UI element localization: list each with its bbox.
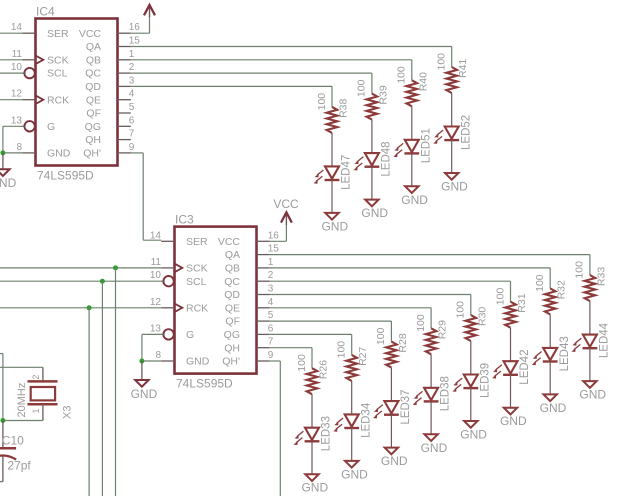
svg-text:R27: R27 [357, 346, 369, 365]
svg-text:LED33: LED33 [321, 416, 333, 451]
svg-text:QD: QD [85, 81, 101, 93]
svg-text:C10: C10 [2, 434, 24, 448]
ground symbol IC4 [0, 153, 17, 190]
wire feed to resistor R27 [351, 334, 353, 355]
svg-text:12: 12 [11, 89, 23, 100]
wire SCL vertical drop [101, 281, 103, 496]
wire C10 to left edge [0, 481, 3, 483]
ground symbol below LED52 [441, 173, 468, 194]
svg-text:100: 100 [356, 79, 368, 97]
wire feed to resistor R39 [371, 73, 373, 94]
wire LED to ground [311, 441, 313, 474]
svg-text:GND: GND [47, 148, 71, 160]
svg-text:2: 2 [129, 62, 135, 73]
wire LED to ground [351, 428, 353, 461]
svg-text:13: 13 [150, 323, 162, 334]
wire QD IC3 to R30 [270, 294, 471, 296]
svg-text:R41: R41 [457, 59, 469, 78]
svg-text:RCK: RCK [186, 302, 208, 314]
wire LED to ground [430, 401, 432, 434]
wire QC IC4 pin 2 to R39 [131, 72, 372, 74]
svg-text:100: 100 [455, 301, 467, 319]
IC IC3 74LS595D shift register [150, 213, 279, 391]
svg-text:VCC: VCC [273, 197, 299, 211]
svg-text:QG: QG [85, 121, 101, 133]
LED LED44 [572, 322, 611, 358]
ground symbol below LED44 [579, 381, 606, 402]
VCC symbol IC3 pin 16 [270, 197, 299, 241]
svg-text:SCL: SCL [186, 276, 207, 288]
svg-text:8: 8 [16, 142, 22, 153]
svg-text:GND: GND [0, 176, 17, 190]
svg-text:13: 13 [11, 115, 23, 126]
wire resistor to LED LED34 [351, 381, 353, 415]
svg-text:R39: R39 [377, 85, 389, 104]
svg-text:GND: GND [361, 206, 388, 220]
svg-text:100: 100 [436, 53, 448, 71]
svg-text:10: 10 [150, 270, 162, 281]
LED LED34 [333, 402, 372, 438]
LED LED38 [413, 376, 452, 411]
svg-text:QB: QB [86, 54, 101, 66]
wire SCL bus to IC3 pin 10 [0, 280, 163, 282]
svg-text:16: 16 [129, 22, 141, 33]
wire QA IC3 to R33 [270, 254, 590, 256]
IC IC4 74LS595D shift register [11, 5, 140, 183]
wire QD IC4 pin 3 to R38 [131, 85, 332, 87]
svg-text:LED42: LED42 [519, 350, 531, 385]
svg-text:QB: QB [225, 263, 240, 275]
crystal X3 20MHz [16, 367, 73, 420]
ground symbol below LED34 [341, 461, 368, 482]
wire resistor to LED LED52 [451, 93, 453, 127]
node junction RCK [87, 305, 92, 310]
wire RCK bus to IC3 pin 12 [0, 307, 161, 309]
LED LED51 [393, 128, 432, 163]
LED LED52 [433, 115, 472, 150]
svg-text:QE: QE [225, 302, 240, 314]
svg-text:16: 16 [268, 230, 280, 241]
wire QG IC3 to R27 [270, 333, 352, 335]
svg-text:7: 7 [268, 337, 274, 348]
ground symbol below LED48 [361, 200, 388, 221]
resistor R27 value 100 [336, 341, 370, 381]
svg-text:1: 1 [129, 49, 135, 60]
wire resistor to LED LED39 [470, 341, 472, 375]
ground symbol below LED47 [321, 213, 348, 234]
wire QC IC3 to R31 [270, 280, 511, 282]
wire GND IC4 pin 8 [3, 152, 22, 154]
svg-text:QA: QA [86, 41, 101, 53]
wire crystal X3 pin 2 net from left edge [0, 354, 3, 421]
svg-text:27pf: 27pf [7, 459, 31, 473]
resistor R40 value 100 [396, 66, 430, 106]
svg-text:3: 3 [268, 284, 274, 295]
svg-text:GND: GND [131, 387, 158, 401]
ground symbol below LED38 [421, 434, 448, 455]
wire resistor to LED LED33 [311, 394, 313, 428]
wire LED to ground [510, 375, 512, 408]
svg-text:G: G [47, 121, 55, 133]
svg-text:QH: QH [85, 134, 101, 146]
svg-text:GND: GND [540, 401, 567, 415]
svg-text:15: 15 [268, 244, 280, 255]
svg-text:LED51: LED51 [420, 128, 432, 163]
svg-text:QH: QH [224, 342, 240, 354]
node junction crystal / C10 [0, 418, 5, 423]
ground symbol IC3 [131, 361, 158, 401]
svg-text:GND: GND [381, 454, 408, 468]
wire LED to ground [371, 167, 373, 200]
svg-text:IC3: IC3 [175, 213, 194, 227]
svg-text:R26: R26 [318, 360, 330, 379]
svg-text:10: 10 [11, 62, 23, 73]
wire QB IC4 pin 1 to R40 [131, 59, 412, 61]
svg-text:15: 15 [129, 36, 141, 47]
svg-text:14: 14 [150, 230, 162, 241]
svg-text:14: 14 [11, 22, 23, 33]
svg-text:12: 12 [150, 297, 162, 308]
wire QH' IC3 pin 9 drop to bottom [270, 361, 281, 496]
svg-text:VCC: VCC [218, 236, 241, 248]
svg-text:QH': QH' [222, 356, 240, 368]
LED LED39 [452, 363, 491, 398]
svg-text:QF: QF [225, 316, 240, 328]
svg-text:9: 9 [268, 350, 274, 361]
svg-text:100: 100 [296, 354, 308, 372]
svg-text:100: 100 [375, 327, 387, 345]
wire QF IC3 to R28 [270, 320, 392, 322]
ground symbol below LED43 [540, 394, 567, 415]
wire crystal X3 pin 2 horizontal from left edge [0, 366, 43, 368]
ground symbol below LED39 [460, 421, 487, 442]
svg-text:100: 100 [415, 314, 427, 332]
svg-text:GND: GND [401, 193, 428, 207]
svg-text:SCL: SCL [47, 68, 68, 80]
wire LED to ground [470, 388, 472, 421]
svg-text:SCK: SCK [186, 263, 208, 275]
wire QE IC3 to R29 [270, 307, 431, 309]
LED LED43 [532, 336, 571, 371]
svg-text:LED34: LED34 [360, 402, 372, 438]
svg-text:SER: SER [186, 236, 208, 248]
svg-text:R29: R29 [437, 320, 449, 339]
svg-text:8: 8 [155, 350, 161, 361]
LED LED48 [354, 141, 393, 176]
wire feed to resistor R33 [589, 255, 591, 276]
svg-text:X3: X3 [62, 406, 74, 419]
svg-text:74LS595D: 74LS595D [176, 377, 233, 391]
svg-text:7: 7 [129, 129, 135, 140]
svg-text:1: 1 [268, 257, 274, 268]
wire feed to resistor R41 [451, 47, 453, 68]
LED LED33 [294, 416, 333, 451]
node junction SCK [113, 265, 118, 270]
svg-text:100: 100 [494, 288, 506, 306]
svg-text:2: 2 [268, 270, 274, 281]
resistor R30 value 100 [455, 301, 489, 341]
svg-text:R33: R33 [595, 267, 607, 286]
svg-text:LED48: LED48 [381, 141, 393, 176]
wire resistor to LED LED42 [510, 328, 512, 362]
wire crystal pin 1 to C10 net [3, 420, 43, 422]
svg-text:GND: GND [579, 388, 606, 402]
svg-text:VCC: VCC [79, 28, 102, 40]
svg-text:100: 100 [574, 261, 586, 279]
svg-text:9: 9 [129, 142, 135, 153]
svg-text:2: 2 [31, 375, 41, 380]
svg-text:LED47: LED47 [341, 155, 353, 190]
svg-text:LED39: LED39 [479, 363, 491, 398]
resistor R39 value 100 [356, 79, 390, 119]
wire feed to resistor R28 [390, 321, 392, 342]
wire resistor to LED LED48 [371, 120, 373, 154]
svg-text:11: 11 [151, 257, 162, 268]
svg-text:100: 100 [534, 274, 546, 292]
wire LED to ground [411, 153, 413, 186]
wire QB IC3 to R32 [270, 267, 550, 269]
svg-text:QC: QC [85, 68, 101, 80]
svg-text:RCK: RCK [47, 94, 69, 106]
svg-text:LED52: LED52 [460, 115, 472, 150]
resistor R38 value 100 [316, 93, 350, 133]
wire G IC4 pin 13 to ground net [3, 126, 24, 153]
svg-text:LED37: LED37 [400, 389, 412, 424]
svg-text:6: 6 [129, 115, 135, 126]
wire feed to resistor R30 [470, 295, 472, 316]
svg-text:R31: R31 [516, 293, 528, 312]
wire resistor to LED LED44 [589, 301, 591, 335]
resistor R33 value 100 [574, 261, 608, 301]
wire QA IC4 pin 15 to R41 [131, 46, 452, 48]
wire resistor to LED LED47 [331, 133, 333, 167]
svg-text:100: 100 [396, 66, 408, 84]
resistor R41 value 100 [436, 53, 470, 93]
svg-text:5: 5 [129, 102, 135, 113]
wire SCK IC4 pin 11 [0, 59, 22, 61]
svg-text:GND: GND [321, 219, 348, 233]
wire resistor to LED LED37 [390, 368, 392, 402]
wire SCK vertical drop [115, 268, 117, 496]
wire resistor to LED LED38 [430, 354, 432, 388]
svg-text:GND: GND [421, 441, 448, 455]
svg-text:LED44: LED44 [599, 322, 611, 358]
svg-text:5: 5 [268, 310, 274, 321]
svg-text:74LS595D: 74LS595D [37, 169, 94, 183]
ground symbol below LED33 [301, 474, 328, 495]
resistor R28 value 100 [375, 327, 409, 367]
wire feed to resistor R31 [510, 281, 512, 302]
wire SCK bus to IC3 pin 11 [0, 267, 161, 269]
svg-text:R40: R40 [417, 72, 429, 91]
svg-text:QE: QE [86, 94, 101, 106]
svg-text:GND: GND [441, 180, 468, 194]
wire feed to resistor R40 [411, 60, 413, 81]
svg-text:SER: SER [47, 28, 69, 40]
wire SER IC4 pin 14 [0, 32, 22, 34]
wire feed to resistor R29 [430, 308, 432, 329]
VCC symbol IC4 pin 16 [131, 5, 155, 34]
svg-text:QF: QF [86, 108, 101, 120]
ground symbol below LED51 [401, 186, 428, 207]
svg-text:QH': QH' [83, 148, 101, 160]
svg-text:4: 4 [129, 89, 135, 100]
wire GND IC3 pin 8 [142, 360, 161, 362]
svg-text:GND: GND [301, 481, 328, 495]
svg-text:20MHz: 20MHz [16, 383, 28, 418]
resistor R26 value 100 [296, 354, 330, 394]
svg-text:LED43: LED43 [559, 336, 571, 371]
svg-text:QG: QG [224, 329, 240, 341]
svg-text:6: 6 [268, 323, 274, 334]
wire RCK IC4 pin 12 [0, 99, 22, 101]
svg-text:QA: QA [225, 249, 240, 261]
svg-text:R38: R38 [338, 98, 350, 117]
LED LED37 [373, 389, 412, 424]
svg-text:GND: GND [460, 428, 487, 442]
node junction IC3 ground [139, 359, 144, 364]
wire QH IC3 to R26 [270, 347, 312, 349]
svg-text:R32: R32 [556, 280, 568, 299]
svg-text:11: 11 [12, 49, 23, 60]
wire LED to ground [331, 180, 333, 213]
wire RCK vertical drop [88, 308, 90, 496]
resistor R31 value 100 [494, 288, 528, 328]
wire feed to resistor R32 [549, 268, 551, 289]
wire LED to ground [589, 348, 591, 381]
svg-text:G: G [186, 329, 194, 341]
svg-text:GND: GND [500, 414, 527, 428]
wire G IC3 pin 13 to ground net [142, 334, 163, 361]
node junction SCL [100, 279, 105, 284]
wire LED to ground [549, 362, 551, 395]
svg-text:QC: QC [224, 276, 240, 288]
wire resistor to LED LED43 [549, 314, 551, 348]
node junction IC4 ground [0, 150, 5, 155]
capacitor C10 27pf [0, 421, 31, 482]
svg-text:3: 3 [129, 75, 135, 86]
svg-text:100: 100 [336, 341, 348, 359]
svg-text:R30: R30 [476, 307, 488, 326]
svg-text:QD: QD [224, 289, 240, 301]
resistor R32 value 100 [534, 274, 568, 314]
ground symbol below LED42 [500, 408, 527, 429]
LED LED42 [492, 350, 531, 385]
ground symbol below LED37 [381, 448, 408, 469]
svg-text:IC4: IC4 [36, 5, 55, 19]
wire feed to resistor R38 [331, 86, 333, 107]
wire LED to ground [451, 140, 453, 173]
svg-text:4: 4 [268, 297, 274, 308]
wire resistor to LED LED51 [411, 106, 413, 140]
svg-text:R28: R28 [397, 333, 409, 352]
svg-text:100: 100 [316, 93, 328, 111]
svg-text:GND: GND [186, 356, 210, 368]
wire feed to resistor R26 [311, 348, 313, 369]
resistor R29 value 100 [415, 314, 449, 354]
LED LED47 [314, 155, 353, 190]
svg-text:GND: GND [341, 467, 368, 481]
svg-text:LED38: LED38 [440, 376, 452, 411]
svg-text:1: 1 [31, 408, 41, 413]
wire LED to ground [390, 415, 392, 448]
svg-text:SCK: SCK [47, 54, 69, 66]
wire SCL IC4 pin 10 [0, 72, 24, 74]
wire QH' IC4 pin 9 to IC3 SER [131, 153, 161, 240]
